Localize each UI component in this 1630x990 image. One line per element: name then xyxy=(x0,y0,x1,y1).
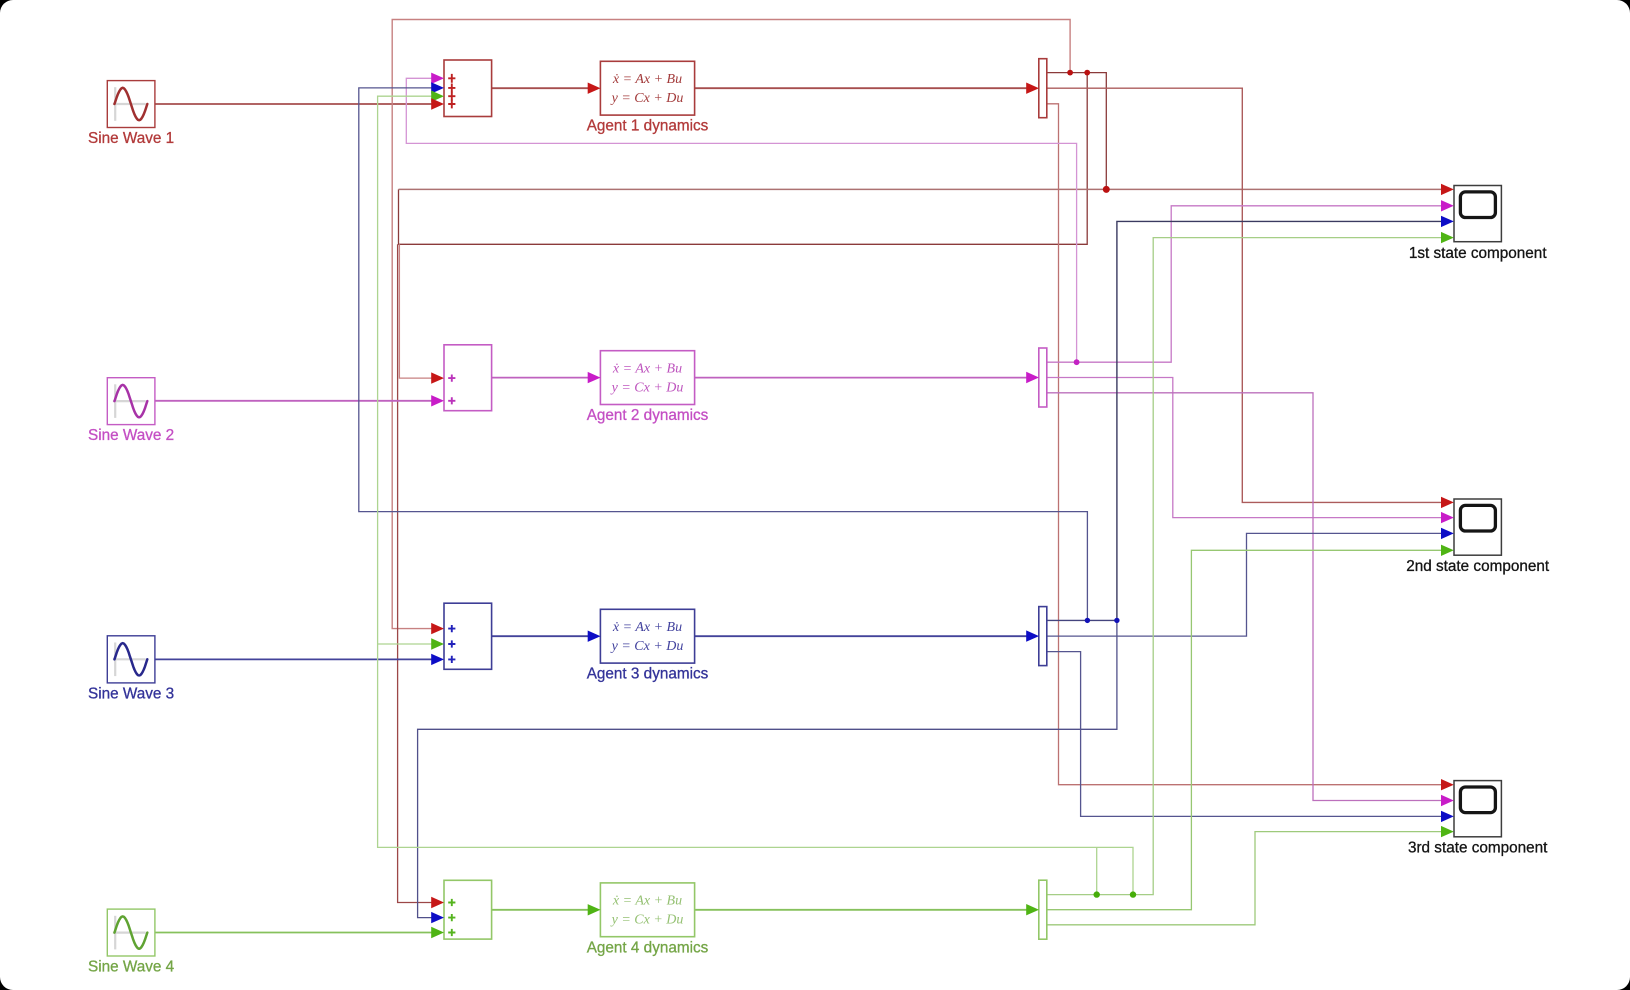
junction node on Demux 1 out1 (to top loop) xyxy=(1067,70,1073,76)
sum block Sum 3 xyxy=(444,603,492,669)
wire Demux 3 out1 feedback to Sum 4 xyxy=(418,620,1117,917)
junction node on Demux 4 out1 (stub) xyxy=(1094,891,1100,897)
demux Demux 3 xyxy=(1039,607,1047,666)
arrowhead into Sum 2 port 1 (from Demux 1) xyxy=(431,372,444,383)
wire Demux 3 out1 to Scope 1 xyxy=(1117,221,1442,620)
svg-text:Sine Wave 2: Sine Wave 2 xyxy=(88,427,174,444)
wire Sine Wave 1 to Sum 1 xyxy=(155,103,432,105)
arrowhead into Demux 2 xyxy=(1026,372,1039,383)
arrowhead into Sum 1 port 1 (from Demux 2) xyxy=(431,73,444,84)
source block Sine Wave 3 xyxy=(107,636,155,683)
wire Sine Wave 4 to Sum 4 xyxy=(155,932,432,934)
junction node on Demux 3 out1 (to Sum 1) xyxy=(1085,618,1090,623)
wire Agent 2 dynamics to Demux 2 xyxy=(695,377,1027,379)
sum block Sum 1 xyxy=(444,60,492,117)
svg-text:Agent 4 dynamics: Agent 4 dynamics xyxy=(587,939,709,956)
arrowhead into Scope 2 port 3 xyxy=(1441,528,1454,539)
arrowhead into Sum 4 port 1 (from Demux 1) xyxy=(431,897,444,908)
wire Demux 1 out1 branch loop xyxy=(399,73,1088,245)
wire Demux 2 out1 feedback to Sum 1 xyxy=(406,78,1076,362)
svg-text:2nd state component: 2nd state component xyxy=(1406,558,1550,575)
wire Demux 1 out1 to Scope 1 xyxy=(399,188,1442,190)
arrowhead into Agent 4 dynamics xyxy=(588,904,601,915)
arrowhead into Sum 1 port 3 (from Demux 4) xyxy=(431,91,444,102)
wire Demux 1 out1 feedback to Sum 4 xyxy=(398,244,432,902)
arrowhead into Scope 1 port 3 xyxy=(1441,216,1454,227)
sum block Sum 2 xyxy=(444,345,492,411)
arrowhead into Agent 3 dynamics xyxy=(588,631,601,642)
source block Sine Wave 4 xyxy=(107,909,155,956)
sum block Sum 4 xyxy=(444,880,492,939)
demux Demux 2 xyxy=(1039,348,1047,407)
svg-text:Agent 2 dynamics: Agent 2 dynamics xyxy=(587,407,709,424)
wire Demux 1 out1 header xyxy=(1047,73,1107,190)
wire Agent 3 dynamics to Demux 3 xyxy=(695,635,1027,637)
wire Demux 2 out1 to Scope 1 xyxy=(1047,206,1442,362)
svg-text:Sine Wave 3: Sine Wave 3 xyxy=(88,686,174,703)
svg-text:Agent 1 dynamics: Agent 1 dynamics xyxy=(587,118,709,135)
wire Sum 1 to Agent 1 dynamics xyxy=(492,87,589,89)
wire Sum 3 to Agent 3 dynamics xyxy=(492,635,589,637)
svg-text:y = Cx + Du: y = Cx + Du xyxy=(610,913,684,928)
arrowhead into Agent 1 dynamics xyxy=(588,83,601,94)
wire Demux 2 out3 to Scope 3 xyxy=(1047,393,1442,801)
svg-text:ẋ = Ax + Bu: ẋ = Ax + Bu xyxy=(612,620,682,635)
arrowhead into Scope 1 port 2 xyxy=(1441,200,1454,211)
arrowhead into Scope 3 port 4 xyxy=(1441,826,1454,837)
svg-text:y = Cx + Du: y = Cx + Du xyxy=(610,381,684,396)
arrowhead into Sum 3 port 1 (from Demux 1) xyxy=(431,623,444,634)
source block Sine Wave 2 xyxy=(107,378,155,425)
svg-text:Sine Wave 4: Sine Wave 4 xyxy=(88,959,175,976)
svg-text:ẋ = Ax + Bu: ẋ = Ax + Bu xyxy=(612,72,682,87)
junction node on Demux 1 out1 (to lower loop) xyxy=(1084,70,1090,76)
state-space block Agent 1 dynamics xyxy=(600,61,694,115)
svg-text:ẋ = Ax + Bu: ẋ = Ax + Bu xyxy=(612,894,682,909)
wire Demux 3 out2 to Scope 2 xyxy=(1047,533,1442,636)
junction node on Demux 3 out1 (to Sum 4) xyxy=(1114,618,1119,623)
arrowhead into Sum 4 port 2 (from Demux 3) xyxy=(431,912,444,923)
wire Demux 3 out1 feedback to Sum 1 xyxy=(359,88,1088,621)
wire Sum 4 to Agent 4 dynamics xyxy=(492,909,589,911)
scope block Scope 1 xyxy=(1454,186,1501,242)
arrowhead into Sum 1 port 4 (from Sine Wave 1) xyxy=(431,98,444,109)
arrowhead into Scope 2 port 4 xyxy=(1441,545,1454,556)
arrowhead into Scope 3 port 2 xyxy=(1441,795,1454,806)
demux Demux 4 xyxy=(1039,880,1047,939)
wire Demux 3 out3 to Scope 3 xyxy=(1047,652,1442,817)
junction node on Scope 1 red wire xyxy=(1103,186,1110,193)
arrowhead into Sum 1 port 2 (from Demux 3) xyxy=(431,82,444,93)
wire Agent 4 dynamics to Demux 4 xyxy=(695,909,1027,911)
svg-text:1st state component: 1st state component xyxy=(1409,245,1548,262)
wire Agent 1 dynamics to Demux 1 xyxy=(695,87,1027,89)
svg-text:Agent 3 dynamics: Agent 3 dynamics xyxy=(587,666,709,683)
wire Demux 4 out2 to Scope 2 xyxy=(1047,550,1442,909)
arrowhead into Demux 3 xyxy=(1026,630,1039,641)
wire Demux 3 out1 header xyxy=(1047,619,1117,621)
wire Demux 1 out2 to Scope 2 xyxy=(1047,88,1442,502)
arrowhead into Scope 1 port 4 xyxy=(1441,232,1454,243)
arrowhead into Sum 2 port 2 (from Sine Wave 2) xyxy=(431,395,444,406)
wire Sine Wave 2 to Sum 2 xyxy=(155,400,432,402)
svg-text:y = Cx + Du: y = Cx + Du xyxy=(610,639,684,654)
svg-text:3rd state component: 3rd state component xyxy=(1408,839,1548,856)
wire Demux 4 out1 feedback to Sum 1 xyxy=(378,96,1133,894)
wire Sine Wave 3 to Sum 3 xyxy=(155,658,432,660)
state-space block Agent 2 dynamics xyxy=(600,351,694,405)
arrowhead into Sum 4 port 3 (from Sine Wave 4) xyxy=(431,927,444,938)
svg-text:Sine Wave 1: Sine Wave 1 xyxy=(88,130,174,147)
wire Sum 2 to Agent 2 dynamics xyxy=(492,377,589,379)
wire Demux 4 out3 to Scope 3 xyxy=(1047,832,1442,925)
junction node on Demux 4 out1 (to Sum 1) xyxy=(1130,891,1136,897)
wire Demux 4 out1 to Scope 1 xyxy=(1047,238,1442,895)
svg-text:y = Cx + Du: y = Cx + Du xyxy=(610,91,684,106)
scope block Scope 3 xyxy=(1454,781,1501,837)
arrowhead into Sum 3 port 2 (from Demux 4) xyxy=(431,638,444,649)
svg-text:ẋ = Ax + Bu: ẋ = Ax + Bu xyxy=(612,361,682,376)
source block Sine Wave 1 xyxy=(107,81,155,128)
state-space block Agent 3 dynamics xyxy=(600,609,694,663)
arrowhead into Agent 2 dynamics xyxy=(588,372,601,383)
wire Demux 4 out1 branch stub xyxy=(1096,847,1098,894)
arrowhead into Scope 2 port 1 xyxy=(1441,497,1454,508)
arrowhead into Scope 1 port 1 xyxy=(1441,184,1454,195)
arrowhead into Sum 3 port 3 (from Sine Wave 3) xyxy=(431,654,444,665)
state-space block Agent 4 dynamics xyxy=(600,883,694,937)
scope block Scope 2 xyxy=(1454,499,1501,555)
wire Demux 1 out3 to Scope 3 xyxy=(1047,104,1442,785)
arrowhead into Demux 1 xyxy=(1026,83,1039,94)
arrowhead into Scope 3 port 1 xyxy=(1441,779,1454,790)
wire Demux 4 feedback branch to Sum 3 xyxy=(378,643,432,645)
demux Demux 1 xyxy=(1039,59,1047,118)
arrowhead into Demux 4 xyxy=(1026,904,1039,915)
arrowhead into Scope 3 port 3 xyxy=(1441,811,1454,822)
wire Demux 1 out1 feedback to Sum 2 xyxy=(399,244,431,378)
arrowhead into Scope 2 port 2 xyxy=(1441,512,1454,523)
wire Demux 2 out2 to Scope 2 xyxy=(1047,378,1442,518)
junction node on Demux 2 out1 xyxy=(1074,359,1080,365)
wire Demux 1 out1 feedback to Sum 3 (top loop) xyxy=(392,20,1070,629)
